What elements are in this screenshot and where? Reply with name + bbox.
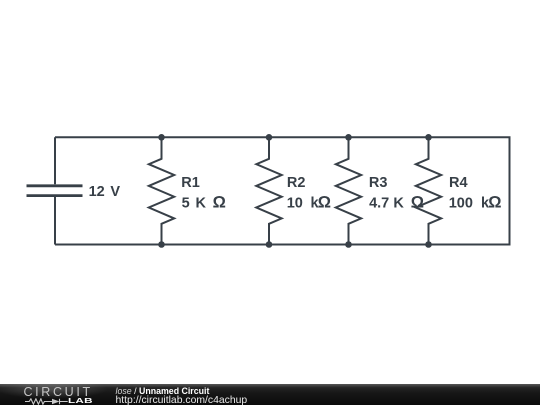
svg-text:12V: 12V	[89, 184, 121, 200]
svg-text:4.7KΩ: 4.7KΩ	[369, 194, 424, 212]
svg-text:R4: R4	[449, 175, 468, 191]
svg-text:100kΩ: 100kΩ	[449, 194, 502, 212]
svg-text:R2: R2	[287, 175, 306, 191]
svg-text:10kΩ: 10kΩ	[287, 194, 331, 212]
svg-text:5KΩ: 5KΩ	[182, 194, 226, 212]
svg-text:R3: R3	[369, 175, 388, 191]
svg-text:R1: R1	[181, 175, 200, 191]
